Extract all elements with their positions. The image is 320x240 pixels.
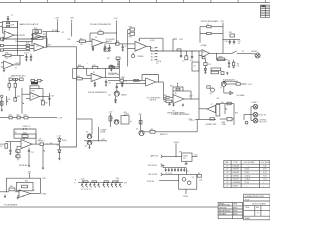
svg-text:+15V: +15V [220,21,225,23]
svg-text:+15V: +15V [184,164,189,166]
wire arrow out [240,83,246,85]
ground C21 [121,85,123,87]
node junctions on bus [162,50,163,51]
wire sum line [3,49,30,51]
svg-text:FINE: FINE [222,122,226,124]
svg-text:8 (14): 8 (14) [245,172,250,174]
node junctions [86,68,87,69]
wire flag2 stem [116,23,118,33]
svg-text:CV: CV [156,63,159,65]
border top line [0,2,270,4]
svg-text:-15V (DOWN): -15V (DOWN) [261,162,270,164]
power +15V tick [7,16,9,18]
resistor R24 [116,57,120,59]
node out junction [46,144,47,145]
potentiometer P2 [21,88,23,114]
svg-text:-: - [22,142,23,144]
svg-text:+15V: +15V [54,17,59,19]
wire fb to inv input [86,68,88,75]
resistor R63 switch row [230,34,235,37]
svg-text:LOWER KYBD: LOWER KYBD [205,124,217,126]
capacitor C4 below U6 [92,47,94,48]
svg-text:SYNC IN: SYNC IN [147,181,155,183]
wire U12 output [31,193,41,195]
op-amp U3 [4,61,14,69]
op-amp U4 [30,92,39,100]
ground U9b [182,104,184,106]
svg-text:1K: 1K [237,65,240,67]
node [59,146,60,147]
resistor R37 [207,32,211,34]
svg-text:Z4: Z4 [95,37,97,39]
wire fb down [89,33,91,41]
ground U9a [173,103,175,105]
title block outer [244,194,270,220]
connector J2 audio out [255,53,260,58]
wire U1B inputs [31,34,33,36]
svg-text:R35: R35 [7,99,10,101]
svg-text:Q9: Q9 [136,129,138,131]
wire vline left [72,68,74,78]
node [116,83,117,84]
svg-text:(PU 1): (PU 1) [190,120,195,122]
capacitor C5 on output [104,44,106,47]
wire VR1 out [192,156,198,158]
resistor R42 small [221,72,224,75]
svg-text:REF: REF [225,162,228,164]
svg-text:+15V: +15V [189,95,194,97]
wire level row [217,59,228,61]
svg-text:+: + [92,80,93,82]
svg-text:C6: C6 [6,58,8,60]
svg-text:KYBD 2: KYBD 2 [252,102,258,104]
diode D1 [230,91,233,94]
svg-text:C15: C15 [14,132,17,134]
svg-text:SIZE: SIZE [246,207,250,209]
parts table bottom right [224,160,270,187]
capacitor C12 drop [233,39,235,41]
diode D3 [58,150,61,153]
wire sync vline [97,127,99,141]
svg-text:+15V (DOWN): +15V (DOWN) [243,162,254,164]
resistor R25 [110,65,113,68]
resistor R54 vert [5,144,8,149]
resistor R40 box [211,68,221,71]
node [42,96,43,97]
wire inputs [164,96,166,98]
node reg [175,156,176,157]
svg-text:+15V: +15V [109,112,114,114]
svg-text:R3: R3 [198,173,200,175]
node top [222,39,223,40]
svg-text:R18: R18 [26,43,29,45]
capacitor C1 above box [7,19,9,21]
wire bus x=223 top [222,23,224,54]
svg-text:--: -- [248,165,250,167]
svg-text:A-5: A-5 [151,58,154,61]
svg-text:R41: R41 [93,65,96,67]
resistor R58 [139,120,142,124]
node [6,141,7,142]
node U8 out [158,81,159,82]
wire U1B output [42,36,47,38]
wire comparator input1 [119,43,135,45]
voltage regulator VR1 [182,153,193,161]
svg-text:PW: PW [68,39,71,41]
svg-text:1 2 3 4 5 6 7 8: 1 2 3 4 5 6 7 8 [81,189,91,191]
ground C18 [28,165,30,167]
svg-text:C2: C2 [33,190,35,192]
svg-text:R49: R49 [15,156,18,158]
wire U6 output [103,43,116,44]
potentiometer P1 circles [13,78,15,80]
svg-text:(A4075): (A4075) [106,40,112,43]
capacitor C21 right [121,82,123,84]
svg-text:C21: C21 [31,152,34,154]
ground C17 [9,152,11,154]
border tick marks [21,0,266,3]
right area: transistor Q2 [221,82,226,87]
resistor R18 fb lower [104,48,108,51]
svg-text:DATE: DATE [233,202,237,205]
svg-text:S1: S1 [242,51,244,53]
svg-text:2ND VOICE: 2ND VOICE [148,165,158,167]
svg-text:1N914: 1N914 [62,140,67,142]
svg-text:R57: R57 [107,58,110,60]
transistor Q8 [182,178,186,182]
capacitor C13 [228,60,230,63]
wire Q down [89,145,91,147]
svg-text:R52: R52 [170,85,173,87]
switch SW1 [232,51,237,53]
wire U10 output [209,52,231,54]
svg-text:Q7: Q7 [220,87,222,89]
resistor R1 [7,22,10,24]
capacitor C8 drop [191,51,193,57]
resistor R46 below output [42,96,44,100]
svg-text:-15V: -15V [199,179,203,181]
capacitor C22 on comparator input [109,45,111,48]
wire PU stub [196,119,198,121]
wire integrator input [77,40,80,42]
wire U9 output [184,98,199,100]
ground row [228,65,230,67]
svg-text:14 (14): 14 (14) [245,175,251,177]
svg-text:R61: R61 [150,129,153,131]
capacitor C20 on output [105,79,107,81]
resistor R44 [14,81,16,84]
wire U5 output [32,143,40,145]
wire top right net y=39.4 [223,38,240,40]
svg-text:Z5: Z5 [226,179,228,181]
svg-text:LM301A: LM301A [233,164,240,167]
wire main run to integrator [47,46,77,48]
bracket 1 [161,155,163,158]
label block dark [31,82,38,84]
svg-text:x2: x2 [130,121,132,123]
potentiometer arrow [224,104,226,114]
bracket 2 [161,164,163,167]
resistor R52 [22,135,28,138]
svg-text:RELEASE: RELEASE [219,212,226,215]
svg-text:7 (7): 7 (7) [263,179,267,181]
wire bus bend [77,118,92,120]
ground chain [58,158,60,160]
capacitor C14 mark [226,71,228,73]
svg-text:VR1: VR1 [179,151,182,153]
resistor R13 row [20,78,24,81]
wire R36 run [200,26,207,28]
wire U4 output [39,95,49,97]
wire below box [185,189,187,194]
wire long vertical x=17.5 lower [17,47,19,56]
svg-text:PULSE INTEGRATOR: PULSE INTEGRATOR [90,23,111,26]
wire from bus to U1B [18,41,33,43]
svg-text:A-4: A-4 [151,56,154,59]
svg-text:R73: R73 [208,64,211,66]
wire 3rd row to box [162,173,178,175]
capacitor C17 [9,142,11,151]
wire R11 [2,55,5,57]
svg-text:+15V: +15V [42,178,47,180]
wire stem b [124,114,126,116]
ground C20 [105,84,107,86]
wire into U9 [164,99,167,101]
resistor R11 [5,54,11,57]
svg-text:CONTROL: CONTROL [259,120,267,122]
wire chain2 [204,66,206,69]
svg-text:CD4013: CD4013 [233,179,239,181]
svg-text:R58: R58 [122,77,125,79]
wire U11 [199,108,207,110]
error amp section: box around R29 [173,87,183,91]
resistor R12 row [9,78,12,81]
wire fb verticals [29,89,31,95]
svg-text:-15V: -15V [116,178,120,180]
wire comparator input2 [128,48,135,50]
svg-text:Z3: Z3 [15,68,17,70]
svg-text:MODE SEL: MODE SEL [19,165,28,167]
svg-text:OCTAVE: OCTAVE [100,128,106,131]
svg-text:-: - [5,33,6,35]
resistor R21 [116,43,119,46]
diode taps D4..D12 [81,183,121,188]
box around R61 [17,182,34,190]
ground left [4,196,6,198]
capacitor C7 drop [180,51,182,56]
svg-text:C31: C31 [124,80,127,82]
node out [105,77,106,78]
svg-text:R12: R12 [34,28,37,30]
svg-text:+15: +15 [61,32,64,34]
svg-text:Z5: Z5 [93,72,95,74]
svg-text:C2 C3: C2 C3 [24,52,29,54]
wire left link [199,27,201,43]
svg-text:R70: R70 [190,60,193,62]
svg-text:8 (14): 8 (14) [245,169,250,171]
svg-text:R37: R37 [45,102,48,104]
svg-text:-: - [92,76,93,78]
svg-text:+15V: +15V [138,114,143,116]
resistor R49 [9,116,12,119]
S+H section: resistor R43 [8,81,10,84]
ground R25 [110,69,112,71]
svg-text:10K: 10K [39,139,43,141]
resistor R35 [210,118,215,120]
wire fb left [172,91,174,97]
svg-text:A-1: A-1 [151,47,154,50]
transistor Q5 [87,140,92,145]
wire top feedback [6,177,40,179]
svg-text:RANGE SELECT: RANGE SELECT [11,74,26,77]
wire link to bus [59,146,76,148]
diode D2 [58,139,61,142]
svg-text:Z9: Z9 [194,66,196,68]
resistor R33 [227,102,231,105]
wire main bus y=51 [151,50,199,52]
svg-text:+15V: +15V [70,18,75,20]
svg-text:Z6: Z6 [226,182,228,184]
svg-text:AUDIO 1: AUDIO 1 [252,50,259,53]
svg-text:KYBD CV: KYBD CV [23,126,31,128]
resistor R60 right [198,175,202,178]
wire cap row to box [185,168,187,175]
svg-text:+15V: +15V [179,39,184,41]
box around R4 [33,30,42,34]
ground C22 [109,49,111,51]
wire supply horizontal [43,31,60,33]
wire columns [8,87,10,90]
svg-text:Z6: Z6 [175,93,177,95]
svg-text:7 (4): 7 (4) [263,165,267,167]
svg-text:CHECKED: CHECKED [219,207,228,209]
capacitor C18 [28,148,30,151]
svg-text:SWITCH: SWITCH [150,99,157,101]
wire U8 output [156,81,164,83]
wire to jack [237,52,255,55]
svg-text:Z5: Z5 [32,96,34,98]
svg-text:SHEET: SHEET [245,218,251,220]
svg-text:R33: R33 [32,90,35,92]
wire U4 inputs [22,93,30,95]
op-amp U11 tip left [207,105,216,112]
svg-text:R30: R30 [129,26,132,28]
capacitor C16 [22,128,24,130]
resistor R50 [17,116,20,119]
capacitor C2 [25,54,27,57]
svg-text:4 (7): 4 (7) [263,172,267,174]
wire fb left down [139,38,141,41]
svg-text:R6: R6 [4,30,6,32]
svg-text:+15V(A): +15V(A) [200,44,207,47]
svg-text:-15VDC: -15VDC [182,196,189,198]
svg-text:Z3: Z3 [37,46,39,48]
ground C2 [25,59,27,61]
wire +15V stem [57,22,59,32]
diode D5 [204,69,206,71]
bracket 3 [161,173,163,176]
wire right column [48,93,50,106]
connector J4 [253,112,258,117]
resistor R39 drop [233,60,235,62]
svg-text:R42: R42 [109,65,112,67]
wire U1A output [14,34,18,36]
transistor Q1 [116,84,118,91]
svg-text:B: B [257,213,259,215]
svg-text:C7: C7 [11,15,13,17]
resistor R22 above bus [177,49,181,51]
approvals table left [218,202,243,218]
box around R52 [14,134,36,138]
wire right vline [118,62,120,80]
wire chain [204,59,206,63]
capacitor C10 below U9 [169,102,171,104]
svg-text:C14: C14 [108,82,111,84]
resistor R17 [79,40,85,43]
capacitor C6 [122,44,124,47]
svg-text:PITCH BENDER: PITCH BENDER [4,204,18,206]
module box M2 left tall [216,104,220,116]
svg-text:R4: R4 [237,63,239,65]
svg-text:VOLT OUT: VOLT OUT [259,122,267,124]
resistor R5 left edge [0,38,3,40]
svg-text:LM308: LM308 [233,186,238,188]
transistor Q3 mark [210,88,214,92]
svg-text:4 (7): 4 (7) [263,169,267,171]
connector J5 [253,118,258,123]
wire bus right vertical x=199 [198,51,200,120]
wire stem a [109,113,111,127]
pulse generator: wire branch left [73,67,78,69]
ground P3 [42,167,44,169]
wire reg stem [175,143,177,156]
wire Q1 lower input to U8 [117,83,146,85]
resistor R4 [35,31,39,33]
node [98,140,99,141]
svg-text:Q3: Q3 [108,94,110,96]
svg-text:R60: R60 [126,114,129,116]
svg-text:+15V: +15V [248,84,253,86]
revision table entry [261,5,265,6]
resistor R34 [227,117,232,120]
op-amp U5 [21,140,32,149]
svg-text:Z6: Z6 [23,139,25,141]
op-amp U8 [146,78,156,86]
resistor R51 [24,116,28,119]
svg-text:Z2: Z2 [226,169,228,171]
svg-text:SW: SW [229,32,232,34]
wire to regulator [162,156,181,158]
wire U7 output [146,45,150,47]
svg-text:+ +: + + [29,51,32,53]
op-amp U1A [4,31,14,39]
wire Q2 collector right [226,83,236,85]
svg-text:-15V GATE: -15V GATE [236,94,245,97]
wire jack stubs [251,106,253,108]
wire right bus [128,29,130,31]
module box M4 [179,174,197,189]
svg-text:CV: CV [0,146,3,148]
svg-text:KYBD: KYBD [42,194,47,196]
transistor Q7 [139,130,144,135]
svg-text:R51: R51 [57,145,60,147]
wire input top y=39 [3,38,32,40]
svg-text:R65: R65 [10,186,13,188]
wire U3 out up [19,56,21,65]
svg-text:R1: R1 [207,24,209,26]
resistor R59 [150,130,155,133]
wire box to input [2,28,4,34]
